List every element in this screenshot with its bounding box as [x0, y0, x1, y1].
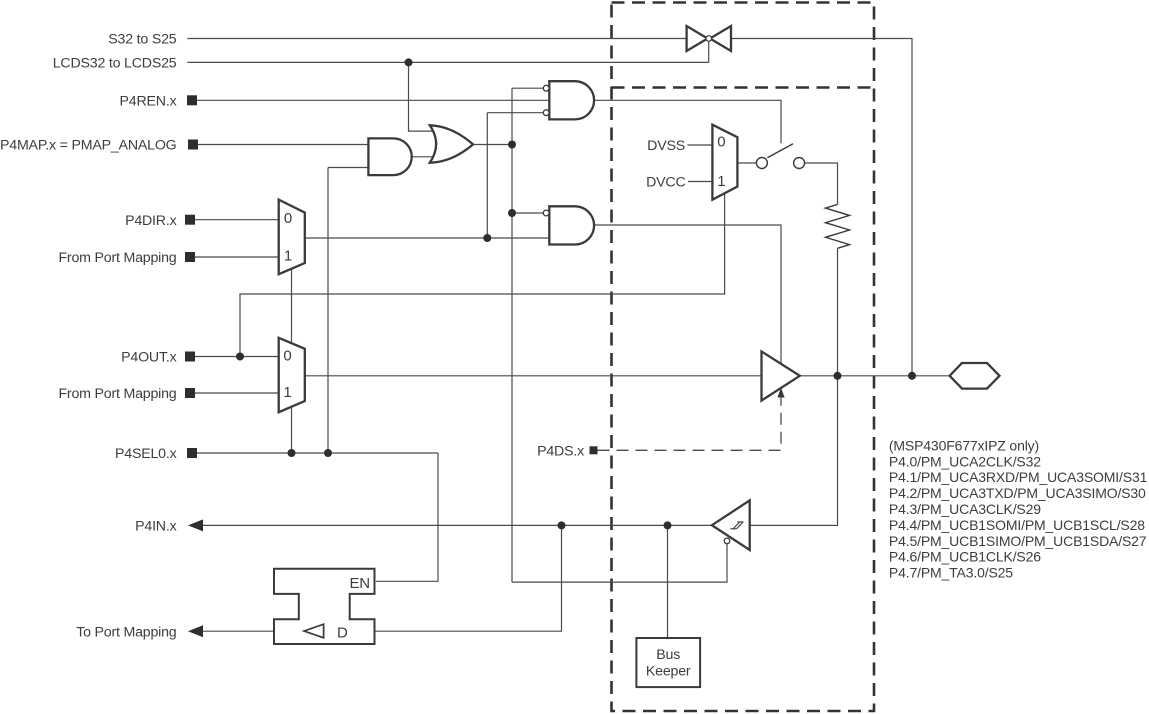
wire P4IN.x	[199, 524, 712, 526]
junction LCDS node	[405, 58, 413, 66]
wire switch gate riser	[708, 41, 710, 62]
svg-text:P4DS.x: P4DS.x	[537, 444, 584, 460]
wire riser to AND1 input	[328, 167, 368, 169]
wire DIR mux output	[305, 237, 488, 239]
svg-text:To Port Mapping: To Port Mapping	[76, 624, 176, 640]
AND gate U2 (PMAP_ANALOG)	[368, 138, 411, 175]
wire DIR node vertical	[486, 113, 488, 238]
wire DIR node to NAND2 bottom input	[487, 237, 549, 239]
wire P4DIR.x	[195, 219, 279, 221]
wire NAND2 output to driver enable	[595, 225, 782, 364]
svg-text:(MSP430F677xIPZ only): (MSP430F677xIPZ only)	[889, 437, 1039, 453]
wire LCDS horizontal	[187, 61, 708, 63]
inner dashed divider	[612, 86, 875, 89]
wire select between muxes	[291, 269, 293, 342]
wire bus keeper riser	[667, 525, 669, 638]
wire switch to resistor	[805, 163, 838, 204]
svg-text:0: 0	[284, 210, 292, 227]
wire From Port Mapping (dir)	[195, 256, 279, 258]
svg-text:P4.5/PM_UCB1SIMO/PM_UCB1SDA/S2: P4.5/PM_UCB1SIMO/PM_UCB1SDA/S27	[889, 533, 1147, 549]
svg-text:Keeper: Keeper	[646, 664, 691, 680]
NAND-style gate U1 (REN logic)	[543, 81, 594, 119]
svg-text:P4.6/PM_UCB1CLK/S26: P4.6/PM_UCB1CLK/S26	[889, 549, 1041, 565]
junction SEL node 1	[288, 449, 296, 457]
wire AND1 output to OR input	[412, 156, 432, 158]
wire To Port Mapping	[199, 630, 274, 632]
junction P4OUT node	[236, 353, 244, 361]
svg-text:Bus: Bus	[656, 647, 680, 663]
wire P4MAP.x	[198, 144, 368, 146]
svg-text:P4.4/PM_UCB1SOMI/PM_UCB1SCL/S2: P4.4/PM_UCB1SOMI/PM_UCB1SCL/S28	[889, 517, 1145, 533]
svg-text:P4.2/PM_UCA3TXD/PM_UCA3SIMO/S3: P4.2/PM_UCA3TXD/PM_UCA3SIMO/S30	[889, 485, 1146, 501]
AND gate U4 (driver enable)	[543, 206, 594, 244]
arrow To Port Mapping	[188, 625, 203, 637]
pin square From Port Mapping 2	[185, 388, 195, 398]
svg-text:P4REN.x: P4REN.x	[120, 94, 177, 110]
P4DS dashed control	[598, 397, 782, 450]
OR gate U3	[430, 125, 473, 162]
wire driver output to pad	[800, 375, 950, 377]
mux M2 (P4OUT / From Port Mapping)	[279, 338, 305, 412]
svg-text:LCDS32 to LCDS25: LCDS32 to LCDS25	[53, 56, 177, 72]
pin function text block	[889, 437, 1148, 580]
wire NAND1 bottom input from DIR node	[487, 112, 544, 114]
svg-text:1: 1	[284, 248, 292, 265]
analog switch (bowtie)	[687, 26, 731, 51]
input Schmitt buffer U6	[712, 500, 750, 550]
pin square P4SEL0.x	[187, 448, 197, 458]
junction pad node 1	[834, 372, 842, 380]
wire P4REN.x	[197, 99, 549, 101]
P4DS arrowhead into driver	[777, 388, 784, 398]
pin square P4DS.x	[590, 446, 598, 454]
junction pad node 2	[908, 372, 916, 380]
svg-text:S32 to S25: S32 to S25	[108, 32, 177, 48]
arrow P4IN.x	[188, 519, 203, 531]
wire From Port Mapping (out)	[195, 392, 279, 394]
wire DVCC stub	[688, 181, 712, 183]
pullup/pulldown enable switch S1	[756, 144, 804, 169]
svg-text:EN: EN	[350, 575, 370, 592]
resistor R1	[826, 204, 850, 248]
svg-text:DVSS: DVSS	[647, 138, 685, 154]
svg-text:From Port Mapping: From Port Mapping	[58, 386, 176, 402]
mux M1 (P4DIR / From Port Mapping)	[279, 200, 305, 275]
svg-text:1: 1	[283, 384, 291, 401]
junction P4IN node 2	[664, 521, 672, 529]
svg-text:0: 0	[717, 134, 725, 151]
wire input buffer enable	[512, 544, 727, 582]
svg-text:From Port Mapping: From Port Mapping	[58, 250, 176, 266]
svg-text:P4.3/PM_UCA3CLK/S29: P4.3/PM_UCA3CLK/S29	[889, 501, 1041, 517]
svg-text:P4OUT.x: P4OUT.x	[121, 350, 176, 366]
wire node to NAND1 top input	[512, 87, 544, 89]
outer dashed boundary box	[612, 3, 875, 712]
wire latch D riser	[375, 525, 562, 631]
port-mapping latch U7	[274, 569, 375, 644]
mux M3 (DVSS / DVCC pull select)	[712, 125, 737, 200]
wire node to NAND2 top input	[512, 212, 544, 214]
pad hexagon P1	[950, 363, 1000, 389]
wire AND1 lower input riser	[327, 168, 329, 454]
bus keeper U8	[636, 638, 700, 687]
pin square P4DIR.x	[185, 215, 195, 225]
svg-text:1: 1	[717, 173, 725, 190]
pin square P4OUT.x	[185, 352, 195, 362]
pin square From Port Mapping 1	[185, 252, 195, 262]
wire resistor to pad line	[837, 248, 839, 375]
junction P4IN node 1	[558, 521, 566, 529]
svg-text:D: D	[337, 624, 348, 641]
junction analog node A	[508, 141, 516, 149]
wire NAND1 output to switch control	[595, 100, 782, 143]
wire LCDS branch to OR input	[409, 62, 437, 131]
wire P4OUT.x	[195, 356, 279, 358]
wire OUT mux output to driver	[305, 375, 762, 377]
junction SEL node 2	[324, 449, 332, 457]
svg-text:P4IN.x: P4IN.x	[135, 519, 176, 535]
wire P4SEL0 to latch EN	[376, 453, 438, 581]
svg-text:P4SEL0.x: P4SEL0.x	[115, 446, 177, 462]
wire select to OUT mux	[291, 407, 293, 454]
wire P4OUT branch to pull mux select	[240, 194, 725, 357]
svg-text:P4.7/PM_TA3.0/S25: P4.7/PM_TA3.0/S25	[889, 565, 1013, 581]
svg-text:P4MAP.x = PMAP_ANALOG: P4MAP.x = PMAP_ANALOG	[0, 138, 177, 154]
junction NAND2 input node	[508, 209, 516, 217]
svg-text:DVCC: DVCC	[646, 175, 685, 191]
svg-text:P4DIR.x: P4DIR.x	[125, 213, 177, 229]
wire OR output to node	[473, 144, 512, 146]
pin square P4REN.x	[187, 95, 197, 105]
wire DVSS stub	[687, 144, 712, 146]
svg-text:0: 0	[283, 347, 291, 364]
pin square P4MAP.x	[188, 140, 198, 150]
wire pad line to input buffer	[750, 376, 838, 526]
wire analog-disable vertical net	[511, 88, 513, 582]
wire S32 right segment to pad	[731, 39, 912, 376]
svg-text:P4.0/PM_UCA2CLK/S32: P4.0/PM_UCA2CLK/S32	[889, 453, 1041, 469]
wire P4SEL0.x	[197, 452, 438, 454]
svg-text:P4.1/PM_UCA3RXD/PM_UCA3SOMI/S3: P4.1/PM_UCA3RXD/PM_UCA3SOMI/S31	[889, 469, 1148, 485]
wire S32 left segment	[187, 38, 686, 40]
junction DIR node	[483, 234, 491, 242]
output driver U5	[762, 352, 800, 401]
wire pull mux output to switch	[737, 162, 756, 164]
